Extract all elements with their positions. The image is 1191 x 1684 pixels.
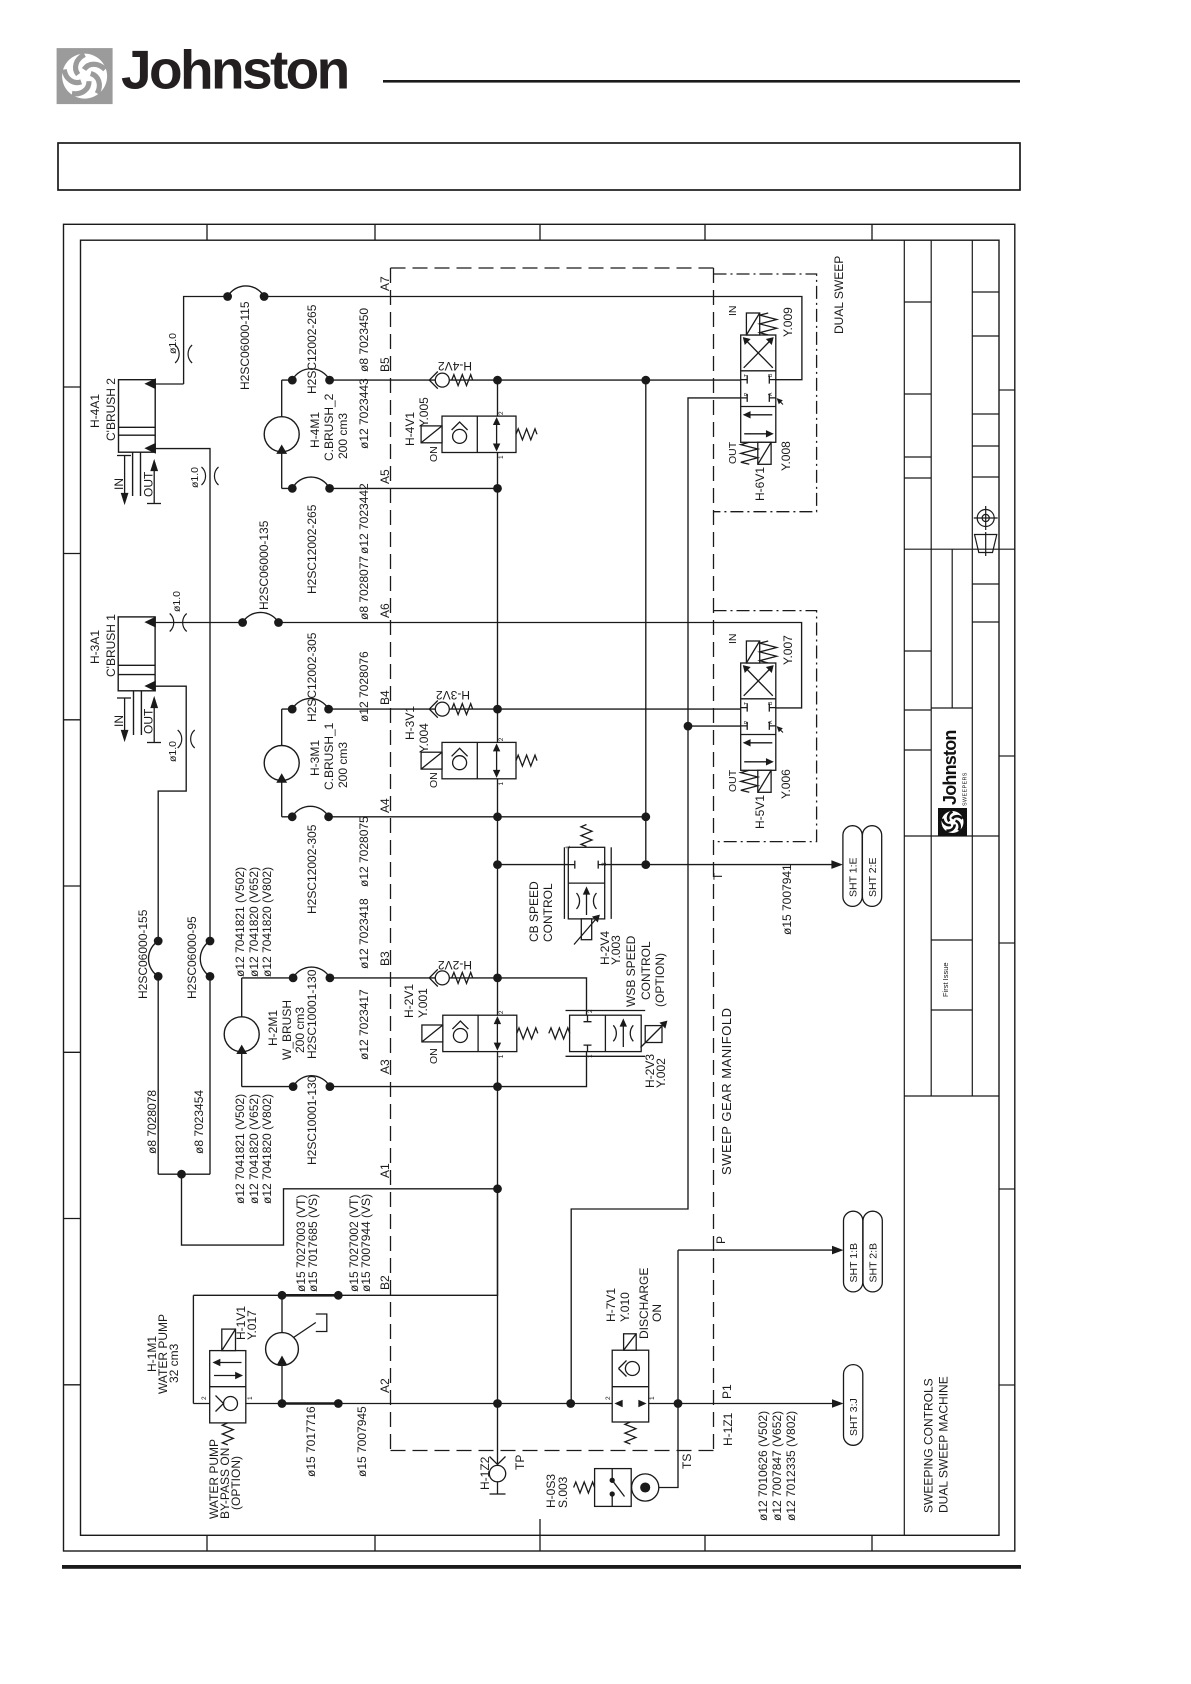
svg-text:Y.003: Y.003 <box>609 935 623 965</box>
spring H-4V2 <box>452 375 473 386</box>
svg-text:DUAL SWEEP MACHINE: DUAL SWEEP MACHINE <box>937 1376 951 1513</box>
svg-text:H-1Z2: H-1Z2 <box>478 1456 492 1490</box>
svg-text:ø12 7041821 (V502): ø12 7041821 (V502) <box>233 867 247 977</box>
svg-text:SHT 2:B: SHT 2:B <box>868 1243 880 1283</box>
svg-text:SHT 3:J: SHT 3:J <box>848 1398 860 1436</box>
CB speed control valve H-2V4 <box>564 847 611 944</box>
svg-text:H-2M1: H-2M1 <box>266 1010 280 1046</box>
directional valve H-6V1 <box>741 313 777 464</box>
flag SHT 3:J <box>832 1399 844 1408</box>
frame zone ticks <box>64 224 873 1551</box>
svg-text:ON: ON <box>428 772 440 788</box>
svg-text:WSB SPEED: WSB SPEED <box>624 935 638 1007</box>
svg-text:Y.017: Y.017 <box>245 1310 259 1340</box>
H-5V1 A-port drain arrow <box>778 727 784 733</box>
svg-text:1: 1 <box>498 1054 505 1058</box>
pressure switch H-0S3 <box>595 1469 659 1507</box>
svg-text:1: 1 <box>498 455 505 459</box>
cylinder H-4A1 C'BRUSH 2 <box>119 379 156 496</box>
svg-text:S.003: S.003 <box>556 1476 570 1508</box>
spring H-3V2 <box>452 704 473 715</box>
svg-text:SHT 1:E: SHT 1:E <box>848 858 860 898</box>
wire A6 <box>155 623 802 708</box>
svg-text:H-4M1: H-4M1 <box>308 412 322 448</box>
svg-text:H-2V1: H-2V1 <box>402 984 416 1018</box>
svg-text:ø12 7010626 (V502): ø12 7010626 (V502) <box>756 1411 770 1521</box>
svg-text:ø12 7041820 (V652): ø12 7041820 (V652) <box>247 1094 261 1204</box>
pump riser <box>281 1295 283 1403</box>
svg-text:H-3A1: H-3A1 <box>88 630 102 664</box>
svg-text:A2: A2 <box>378 1378 392 1393</box>
svg-text:200 cm3: 200 cm3 <box>293 1007 307 1053</box>
svg-text:SWEEPERS: SWEEPERS <box>963 772 969 806</box>
hose arc B3 <box>293 967 330 978</box>
svg-text:H2SC12002-305: H2SC12002-305 <box>305 632 319 722</box>
wire A3 <box>242 1052 587 1087</box>
Johnston logo <box>57 48 113 104</box>
TS drop to pressure switch <box>659 1404 678 1488</box>
svg-text:(OPTION): (OPTION) <box>653 953 667 1007</box>
sweep gear manifold dashed boundary <box>391 268 714 1451</box>
svg-text:ø15 7007941: ø15 7007941 <box>780 864 794 935</box>
svg-text:IN: IN <box>727 306 739 317</box>
H-0S3 spring <box>574 1482 595 1493</box>
bypass valve H-1V1 <box>210 1329 246 1423</box>
svg-text:ø12 7041820 (V652): ø12 7041820 (V652) <box>247 867 261 977</box>
svg-text:P1: P1 <box>720 1384 734 1399</box>
svg-text:(OPTION): (OPTION) <box>229 1456 243 1510</box>
svg-text:Y.002: Y.002 <box>654 1058 668 1088</box>
H-5V1 P stub <box>688 725 741 727</box>
svg-text:Y.001: Y.001 <box>416 988 430 1018</box>
wire B3 <box>242 978 587 1015</box>
svg-text:CONTROL: CONTROL <box>639 941 653 1000</box>
svg-text:A6: A6 <box>378 603 392 618</box>
svg-text:ø12 7023442: ø12 7023442 <box>357 483 371 554</box>
svg-text:B3: B3 <box>378 951 392 966</box>
cylinder 1 rod return line <box>155 686 186 1174</box>
svg-text:ø8 7028078: ø8 7028078 <box>145 1090 159 1154</box>
drawing frame outer <box>64 224 1015 1551</box>
bottom heavy rule <box>62 1565 1021 1569</box>
svg-text:DISCHARGE: DISCHARGE <box>637 1268 651 1339</box>
drawing frame inner <box>81 240 1000 1535</box>
svg-text:ø12 7012335 (V802): ø12 7012335 (V802) <box>784 1411 798 1521</box>
svg-text:Y.005: Y.005 <box>417 397 431 427</box>
motor H-2M1 loop <box>241 978 243 1087</box>
flag SHT 1:B / 2:B <box>832 1246 844 1255</box>
svg-text:Y.008: Y.008 <box>779 441 793 471</box>
wire A2 / P1 <box>193 1403 837 1405</box>
test point H-1Z2 TP <box>489 1457 505 1495</box>
svg-text:H-6V1: H-6V1 <box>753 467 767 501</box>
svg-text:ON: ON <box>428 1048 440 1064</box>
svg-text:SWEEP GEAR MANIFOLD: SWEEP GEAR MANIFOLD <box>719 1008 734 1175</box>
motor H-2M1 <box>224 1017 259 1054</box>
svg-text:1: 1 <box>247 1396 254 1400</box>
svg-text:B4: B4 <box>378 690 392 705</box>
svg-text:H2SC06000-95: H2SC06000-95 <box>185 916 199 999</box>
svg-text:2: 2 <box>498 1010 505 1014</box>
svg-text:H2SC12002-305: H2SC12002-305 <box>305 824 319 914</box>
svg-text:ø12 7041820 (V802): ø12 7041820 (V802) <box>260 1094 274 1204</box>
dual sweep dash-dot box H-6V1 <box>714 274 817 512</box>
svg-text:ø12 7028076: ø12 7028076 <box>357 651 371 722</box>
svg-text:ø1.0: ø1.0 <box>167 741 179 762</box>
A1 collector <box>158 1174 497 1245</box>
solenoid valve H-2V1 <box>422 1015 517 1051</box>
svg-text:2: 2 <box>498 411 505 415</box>
svg-text:H2SC06000-135: H2SC06000-135 <box>257 520 271 610</box>
spring H-2V2 <box>452 972 473 983</box>
svg-text:ON: ON <box>650 1304 664 1322</box>
hose arc rod1 <box>149 941 159 976</box>
svg-text:H2SC06000-115: H2SC06000-115 <box>238 301 252 390</box>
svg-text:ø12 7023417: ø12 7023417 <box>357 989 371 1060</box>
svg-text:W_BRUSH: W_BRUSH <box>280 1000 294 1060</box>
check valve H-2V2 on B3 <box>429 969 449 986</box>
svg-text:1: 1 <box>587 1054 594 1058</box>
T wire to flags <box>498 864 837 866</box>
CB spring top <box>581 825 592 847</box>
svg-text:C.BRUSH_2: C.BRUSH_2 <box>322 393 336 461</box>
header box <box>58 143 1020 190</box>
B2 hose thick <box>282 1294 338 1297</box>
svg-text:H-4A1: H-4A1 <box>88 394 102 428</box>
title block <box>904 240 1015 1535</box>
hose arc A6 <box>243 612 279 622</box>
hose arc B4 <box>292 699 328 710</box>
svg-text:TS: TS <box>680 1454 694 1469</box>
OUT arrow cyl2 <box>147 461 161 504</box>
A2 hose thick <box>282 1402 338 1405</box>
svg-text:1: 1 <box>565 845 572 849</box>
wire A5 <box>282 487 498 489</box>
motor H-4M1 loop <box>281 380 283 488</box>
svg-text:A7: A7 <box>378 276 392 291</box>
IN arrow cyl2 <box>117 456 131 504</box>
svg-text:ø12 7041821 (V502): ø12 7041821 (V502) <box>233 1094 247 1204</box>
svg-text:ø12 7023443: ø12 7023443 <box>357 378 371 449</box>
svg-text:SWEEPING CONTROLS: SWEEPING CONTROLS <box>922 1378 936 1513</box>
discharge valve H-7V1 <box>612 1334 649 1422</box>
svg-text:ø15 7017685 (VS): ø15 7017685 (VS) <box>306 1194 320 1292</box>
svg-text:Y.009: Y.009 <box>781 307 795 337</box>
svg-text:H2SC06000-155: H2SC06000-155 <box>136 909 150 999</box>
wire B5 / T line to H-6V1 <box>282 379 741 381</box>
check valve H-3V2 on B4 <box>429 701 449 718</box>
svg-text:OUT: OUT <box>142 708 156 734</box>
svg-text:H-4V2: H-4V2 <box>438 359 472 373</box>
cylinder 2 rod return line <box>155 449 210 1175</box>
svg-text:OUT: OUT <box>727 441 739 464</box>
svg-text:B5: B5 <box>378 357 392 372</box>
svg-text:2: 2 <box>587 1009 594 1013</box>
svg-text:Y.006: Y.006 <box>779 769 793 799</box>
wire A7 <box>155 297 802 385</box>
svg-text:IN: IN <box>727 634 739 645</box>
svg-text:B2: B2 <box>378 1275 392 1290</box>
svg-text:H-7V1: H-7V1 <box>604 1288 618 1322</box>
svg-text:C'BRUSH 1: C'BRUSH 1 <box>104 614 118 677</box>
wire B4 / T line to H-5V1 <box>282 708 741 710</box>
main gallery bus <box>497 380 499 1403</box>
svg-text:H-2V2: H-2V2 <box>438 958 472 972</box>
svg-text:200 cm3: 200 cm3 <box>336 413 350 459</box>
svg-text:TP: TP <box>513 1455 527 1470</box>
svg-text:Y.007: Y.007 <box>781 635 795 665</box>
svg-text:ø12 7028075: ø12 7028075 <box>357 816 371 887</box>
svg-text:ø8 7023454: ø8 7023454 <box>192 1090 206 1154</box>
spring H-2V1 <box>517 1028 538 1039</box>
svg-text:H2SC12002-265: H2SC12002-265 <box>305 304 319 394</box>
svg-text:ø8 7028077: ø8 7028077 <box>357 556 371 620</box>
svg-text:1: 1 <box>649 1396 656 1400</box>
bypass loop <box>192 1295 194 1403</box>
dual sweep dash-dot box H-5V1 <box>714 611 817 842</box>
projection symbol <box>974 506 998 556</box>
svg-text:Y.004: Y.004 <box>417 723 431 753</box>
svg-text:2: 2 <box>201 1396 208 1400</box>
spring H-4V1 <box>516 429 537 440</box>
svg-text:Johnston: Johnston <box>121 39 348 101</box>
svg-text:CONTROL: CONTROL <box>541 883 555 942</box>
svg-text:ON: ON <box>428 446 440 462</box>
IN arrow cyl1 <box>117 698 131 740</box>
H-6V1 A-port drain arrow <box>778 399 784 405</box>
svg-text:ø1.0: ø1.0 <box>189 467 201 488</box>
breather cyl2 rod <box>202 467 219 485</box>
cylinder H-3A1 C'BRUSH 1 <box>118 617 155 735</box>
svg-text:H2SC10001-130: H2SC10001-130 <box>305 969 319 1059</box>
svg-text:ø1.0: ø1.0 <box>167 333 179 354</box>
svg-text:1: 1 <box>498 782 505 786</box>
svg-text:A3: A3 <box>378 1059 392 1074</box>
svg-text:200 cm3: 200 cm3 <box>336 742 350 788</box>
svg-text:H2SC12002-265: H2SC12002-265 <box>305 504 319 594</box>
svg-text:DUAL SWEEP: DUAL SWEEP <box>832 256 846 334</box>
H-1V1 spring bottom <box>222 1423 233 1445</box>
svg-text:H-3M1: H-3M1 <box>308 740 322 776</box>
solenoid valve H-3V1 <box>421 742 516 778</box>
P gallery vertical <box>571 398 741 1404</box>
svg-text:First Issue: First Issue <box>941 962 950 997</box>
svg-text:ø15 7007945: ø15 7007945 <box>355 1406 369 1477</box>
motor H-4M1 <box>264 417 299 454</box>
hose arc A5 <box>292 477 329 488</box>
svg-text:ø15 7017716: ø15 7017716 <box>304 1406 318 1477</box>
svg-text:ø8 7023450: ø8 7023450 <box>357 308 371 372</box>
flag SHT 1:E / 2:E <box>831 860 843 869</box>
svg-text:A4: A4 <box>378 798 392 813</box>
svg-text:ø15 7007944 (VS): ø15 7007944 (VS) <box>359 1194 373 1292</box>
svg-text:ø12 7023418: ø12 7023418 <box>357 898 371 969</box>
svg-text:H-4V1: H-4V1 <box>403 412 417 446</box>
hose arc rod2 <box>200 941 210 976</box>
hose arc A7 <box>228 286 265 297</box>
svg-text:2: 2 <box>601 862 608 866</box>
svg-text:SHT 2:E: SHT 2:E <box>867 858 879 898</box>
wire B2 <box>193 1189 497 1296</box>
svg-text:ø12 7007847 (V652): ø12 7007847 (V652) <box>770 1411 784 1521</box>
svg-text:H-5V1: H-5V1 <box>753 795 767 829</box>
svg-text:ø1.0: ø1.0 <box>171 591 183 612</box>
WSB speed control valve H-2V3 <box>566 1011 667 1057</box>
svg-text:2: 2 <box>498 737 505 741</box>
svg-text:ø12 7041820 (V802): ø12 7041820 (V802) <box>260 867 274 977</box>
breather cyl2 cap <box>175 345 192 363</box>
title block johnston logo <box>938 730 969 836</box>
H-7V1 spring bottom <box>625 1422 636 1444</box>
WSB spring left <box>549 1028 570 1039</box>
svg-text:T: T <box>711 872 725 880</box>
svg-text:32 cm3: 32 cm3 <box>167 1343 181 1383</box>
svg-text:H-1Z1: H-1Z1 <box>721 1412 735 1446</box>
svg-text:T: T <box>744 374 750 377</box>
svg-text:A1: A1 <box>378 1163 392 1178</box>
header rule <box>383 80 1020 83</box>
svg-text:OUT: OUT <box>727 769 739 792</box>
svg-text:C.BRUSH_1: C.BRUSH_1 <box>322 722 336 790</box>
svg-text:IN: IN <box>112 715 126 727</box>
hose arc A3 <box>293 1076 330 1087</box>
svg-text:Y.010: Y.010 <box>618 1292 632 1322</box>
TP drop <box>497 1404 499 1465</box>
svg-text:2: 2 <box>605 1396 612 1400</box>
breather cyl1 rod <box>178 730 195 748</box>
svg-text:CB SPEED: CB SPEED <box>527 881 541 942</box>
OUT arrow cyl1 <box>147 698 161 743</box>
motor H-3M1 loop <box>281 709 283 817</box>
wire A4 <box>282 816 646 818</box>
svg-text:A5: A5 <box>378 469 392 484</box>
svg-text:H2SC10001-130: H2SC10001-130 <box>305 1075 319 1165</box>
svg-text:P: P <box>714 1236 728 1244</box>
hose arc B5 <box>292 369 329 380</box>
hose arc A4 <box>292 806 328 817</box>
svg-text:IN: IN <box>112 478 126 490</box>
T return drop from B5 <box>645 380 647 864</box>
spring H-3V1 <box>516 755 537 766</box>
breather cyl1 cap <box>170 614 187 632</box>
water pump H-1M1 <box>266 1314 327 1365</box>
solenoid valve H-4V1 <box>421 416 516 452</box>
svg-text:SHT 1:B: SHT 1:B <box>848 1243 860 1283</box>
svg-text:H-3V1: H-3V1 <box>403 706 417 740</box>
motor H-3M1 <box>264 746 299 783</box>
svg-text:Johnston: Johnston <box>940 730 960 805</box>
svg-text:OUT: OUT <box>142 471 156 497</box>
svg-text:H-3V2: H-3V2 <box>436 688 470 702</box>
P wire to flags <box>678 1250 837 1403</box>
check valve H-4V2 on B5 <box>429 372 449 389</box>
directional valve H-5V1 <box>741 641 777 792</box>
svg-text:C'BRUSH 2: C'BRUSH 2 <box>104 378 118 441</box>
svg-text:T: T <box>744 702 750 705</box>
